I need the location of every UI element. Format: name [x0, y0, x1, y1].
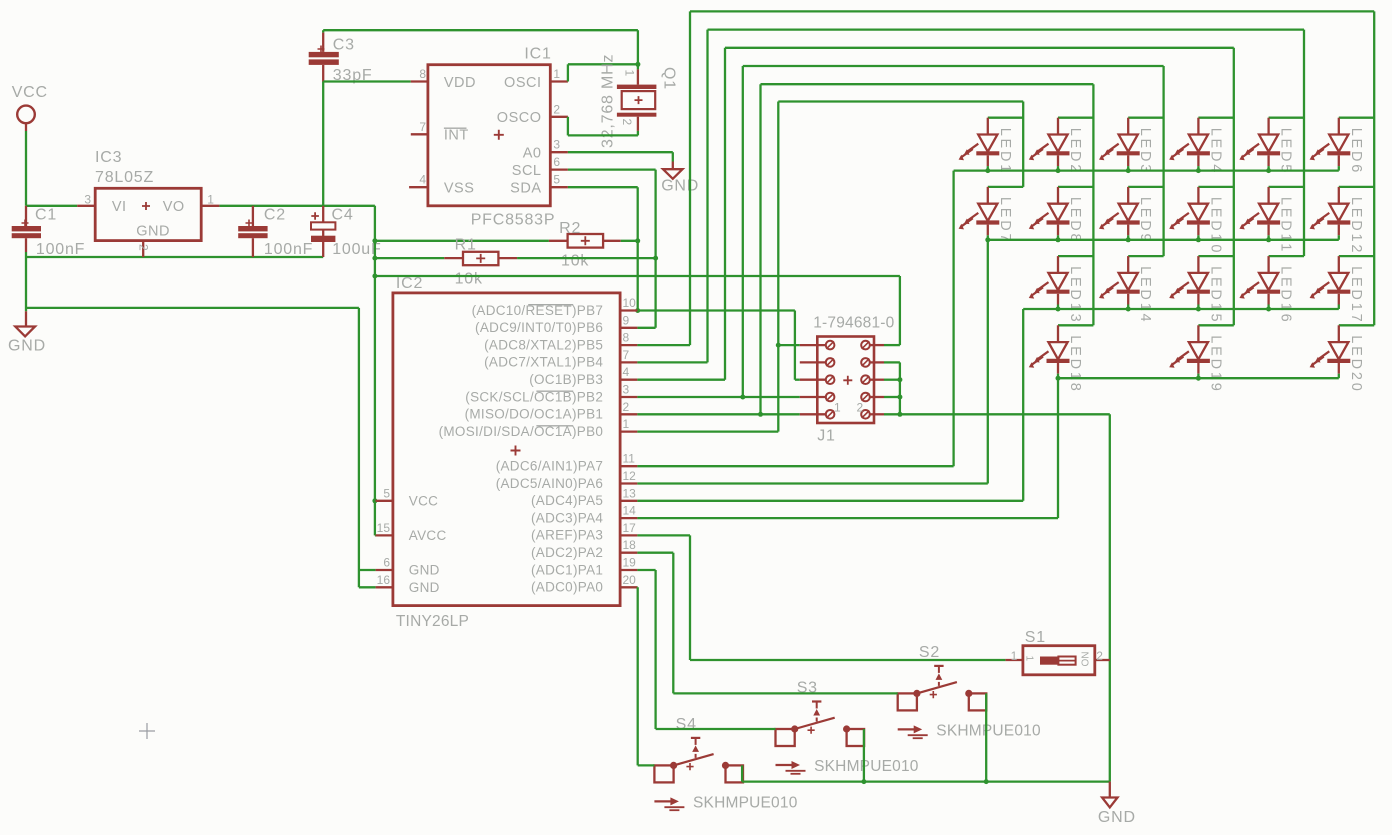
svg-text:LED15: LED15	[1207, 266, 1223, 324]
svg-text:PFC8583P: PFC8583P	[471, 212, 556, 229]
svg-text:INT: INT	[444, 128, 469, 144]
wire OSCI net	[568, 64, 638, 81]
svg-text:1: 1	[207, 193, 214, 207]
svg-text:1: 1	[1011, 649, 1018, 663]
svg-text:78L05Z: 78L05Z	[95, 169, 154, 186]
svg-text:IC1: IC1	[524, 46, 551, 63]
svg-text:14: 14	[623, 504, 637, 518]
LED11	[1239, 187, 1304, 254]
svg-text:LED1: LED1	[997, 128, 1013, 175]
LED6	[1310, 118, 1375, 175]
svg-text:VCC: VCC	[12, 84, 48, 101]
wire VCC to J1 feed	[375, 276, 900, 345]
capacitor C3	[309, 30, 373, 84]
svg-text:10k: 10k	[455, 271, 483, 288]
svg-text:(ADC3)PA4: (ADC3)PA4	[531, 510, 603, 525]
svg-text:(ADC6/AIN1)PA7: (ADC6/AIN1)PA7	[496, 459, 603, 474]
svg-text:(ADC8/XTAL2)PB5: (ADC8/XTAL2)PB5	[484, 337, 603, 352]
svg-text:LED13: LED13	[1067, 266, 1083, 324]
svg-text:LED5: LED5	[1278, 128, 1294, 175]
switch S3 SKHMPUE010	[776, 680, 919, 776]
svg-text:7: 7	[419, 120, 426, 134]
LED13	[1029, 256, 1094, 324]
svg-text:SDA: SDA	[510, 181, 541, 197]
svg-text:16: 16	[377, 573, 391, 587]
svg-text:3: 3	[84, 193, 91, 207]
wire GND to IC2 pins	[26, 308, 376, 587]
LED19	[1169, 325, 1234, 393]
svg-text:2: 2	[553, 102, 560, 116]
svg-text:100nF: 100nF	[36, 241, 85, 258]
wire C3 top to OSCI	[323, 30, 640, 67]
svg-text:LED6: LED6	[1348, 128, 1364, 175]
svg-text:8: 8	[623, 331, 630, 345]
svg-text:LED9: LED9	[1137, 197, 1153, 244]
svg-text:GND: GND	[136, 223, 170, 239]
LED7	[959, 187, 1024, 244]
svg-text:Q1: Q1	[661, 67, 678, 90]
svg-text:OSCO: OSCO	[497, 110, 542, 126]
svg-text:S2: S2	[919, 644, 940, 661]
svg-text:TINY26LP: TINY26LP	[396, 613, 469, 630]
LED1	[959, 118, 1024, 175]
svg-text:C3: C3	[333, 36, 355, 53]
resistor R1	[375, 237, 656, 288]
svg-text:VCC: VCC	[409, 493, 438, 508]
svg-text:2: 2	[1096, 649, 1103, 663]
LED9	[1099, 187, 1164, 244]
svg-text:8: 8	[419, 67, 426, 81]
svg-text:GND: GND	[8, 338, 46, 355]
svg-text:LED2: LED2	[1067, 128, 1083, 175]
svg-text:1: 1	[623, 70, 637, 77]
capacitor C2	[238, 206, 313, 258]
svg-text:9: 9	[623, 313, 630, 327]
svg-text:LED18: LED18	[1067, 335, 1083, 393]
LED14	[1099, 256, 1164, 324]
svg-text:VO: VO	[163, 199, 185, 215]
svg-text:VI: VI	[112, 199, 127, 215]
svg-text:LED14: LED14	[1137, 266, 1153, 324]
LED10	[1169, 187, 1234, 255]
svg-text:LED10: LED10	[1207, 197, 1223, 255]
svg-text:1: 1	[1024, 656, 1035, 662]
svg-text:SKHMPUE010: SKHMPUE010	[693, 794, 798, 811]
svg-text:4: 4	[419, 173, 426, 187]
wire C3 bottom to VDD	[323, 82, 411, 206]
voltage regulator IC3 78L05Z	[77, 149, 219, 257]
wire cathode bus row4	[637, 376, 1338, 518]
LED15	[1169, 256, 1234, 324]
svg-text:GND: GND	[1098, 809, 1136, 826]
svg-text:C1: C1	[35, 207, 57, 224]
svg-text:1: 1	[834, 401, 841, 415]
wire cathode bus row2	[637, 237, 1338, 483]
switch S4 SKHMPUE010	[654, 716, 797, 812]
svg-text:10k: 10k	[561, 253, 589, 270]
LED16	[1239, 256, 1304, 324]
svg-text:(ADC4)PA5: (ADC4)PA5	[531, 493, 603, 508]
svg-text:(ADC9/INT0/T0)PB6: (ADC9/INT0/T0)PB6	[475, 320, 603, 335]
wire GND bottom bus	[742, 765, 1110, 781]
ic IC1 PFC8583P	[409, 46, 568, 229]
wire pin17 to S1	[637, 535, 1005, 660]
svg-text:VSS: VSS	[444, 181, 475, 197]
svg-text:LED16: LED16	[1278, 266, 1294, 324]
svg-text:LED12: LED12	[1348, 197, 1364, 255]
svg-text:(AREF)PA3: (AREF)PA3	[531, 528, 603, 543]
svg-text:VDD: VDD	[444, 75, 476, 91]
svg-text:IC2: IC2	[396, 275, 423, 292]
svg-text:LED7: LED7	[997, 197, 1013, 244]
svg-text:1: 1	[623, 417, 630, 431]
wire cathode bus row1	[637, 168, 1338, 466]
svg-text:SKHMPUE010: SKHMPUE010	[814, 758, 919, 775]
svg-text:R1: R1	[455, 237, 477, 254]
wire GND rail	[26, 252, 323, 257]
svg-text:IC3: IC3	[95, 149, 122, 166]
svg-text:4: 4	[623, 365, 630, 379]
svg-text:11: 11	[623, 452, 636, 466]
svg-text:1-794681-0: 1-794681-0	[813, 315, 894, 332]
svg-text:1: 1	[553, 67, 560, 81]
svg-text:J1: J1	[817, 428, 836, 445]
svg-text:2: 2	[137, 244, 151, 251]
svg-text:(ADC2)PA2: (ADC2)PA2	[531, 545, 603, 560]
wire anode bus A	[637, 11, 1374, 345]
wire anode bus D	[637, 66, 1163, 400]
svg-text:ON: ON	[1081, 652, 1092, 667]
svg-text:(SCK/SCL/OC1B)PB2: (SCK/SCL/OC1B)PB2	[465, 389, 603, 404]
wire A0 to GND	[568, 152, 673, 161]
LED20	[1310, 325, 1375, 393]
svg-text:SKHMPUE010: SKHMPUE010	[936, 722, 1041, 739]
svg-text:20: 20	[623, 573, 637, 587]
wire pin18 to S2	[637, 553, 897, 694]
svg-text:C4: C4	[332, 207, 354, 224]
svg-text:GND: GND	[409, 580, 440, 595]
LED5	[1239, 118, 1304, 175]
svg-text:(ADC5/AIN0)PA6: (ADC5/AIN0)PA6	[496, 476, 603, 491]
svg-text:3: 3	[553, 138, 560, 152]
svg-text:(ADC0)PA0: (ADC0)PA0	[531, 580, 603, 595]
svg-text:OSCI: OSCI	[504, 75, 541, 91]
switch S2 SKHMPUE010	[898, 644, 1041, 740]
svg-text:13: 13	[623, 486, 637, 500]
wire OSCO net	[568, 117, 638, 136]
svg-text:LED4: LED4	[1207, 128, 1223, 175]
wire SDA net	[568, 187, 640, 313]
wire anode bus E	[637, 84, 1093, 417]
LED12	[1310, 187, 1375, 255]
svg-text:LED20: LED20	[1348, 335, 1364, 393]
wire GND long J1R5 to S1	[884, 414, 1110, 781]
LED4	[1169, 118, 1234, 175]
svg-text:R2: R2	[559, 220, 581, 237]
wire VCC to rail	[25, 131, 27, 206]
svg-text:LED17: LED17	[1348, 266, 1364, 324]
svg-text:2: 2	[623, 400, 630, 414]
svg-text:2: 2	[857, 401, 864, 415]
wire S3 pad to GND bus	[861, 729, 866, 784]
ground symbol GND left	[8, 257, 46, 355]
svg-text:LED19: LED19	[1207, 335, 1223, 393]
svg-text:LED8: LED8	[1067, 197, 1083, 244]
resistor R2	[375, 220, 638, 270]
svg-text:32,768 MHz: 32,768 MHz	[600, 54, 617, 148]
svg-text:S4: S4	[676, 716, 697, 733]
connector J1	[800, 315, 895, 445]
svg-text:SCL: SCL	[512, 163, 542, 179]
svg-text:7: 7	[623, 348, 630, 362]
svg-text:LED3: LED3	[1137, 128, 1153, 175]
svg-text:3: 3	[623, 383, 630, 397]
svg-text:A0: A0	[523, 146, 542, 162]
svg-text:6: 6	[383, 556, 390, 570]
crystal Q1	[600, 54, 678, 148]
svg-text:17: 17	[623, 521, 637, 535]
power symbol VCC	[12, 84, 48, 131]
svg-text:12: 12	[623, 469, 637, 483]
wire cathode bus row3	[637, 307, 1338, 501]
LED2	[1029, 118, 1094, 175]
LED17	[1310, 256, 1375, 324]
svg-text:GND: GND	[409, 563, 440, 578]
ground symbol GND bottom	[1098, 782, 1136, 826]
switch S1	[1005, 629, 1109, 675]
wire pin10 to J1 L3	[638, 311, 800, 380]
svg-text:10: 10	[623, 296, 637, 310]
wire SCL net	[568, 170, 658, 328]
svg-text:(MISO/DO/OC1A)PB1: (MISO/DO/OC1A)PB1	[465, 407, 604, 422]
wire J1 right to GND net	[884, 362, 902, 416]
ground symbol GND at Q1	[661, 162, 699, 195]
LED8	[1029, 187, 1094, 244]
svg-text:19: 19	[623, 556, 637, 570]
LED18	[1029, 325, 1094, 393]
wire pin20 to S4	[637, 587, 654, 765]
svg-text:15: 15	[377, 521, 391, 535]
svg-text:S1: S1	[1025, 629, 1046, 646]
capacitor C1	[12, 206, 86, 258]
LED3	[1099, 118, 1164, 175]
svg-text:2: 2	[620, 119, 634, 126]
svg-text:(OC1B)PB3: (OC1B)PB3	[529, 372, 603, 387]
wire pin19 to S3	[637, 570, 775, 729]
svg-text:18: 18	[623, 538, 637, 552]
svg-text:100nF: 100nF	[264, 241, 313, 258]
svg-text:5: 5	[383, 486, 390, 500]
capacitor C4 electrolytic	[311, 206, 382, 258]
svg-text:6: 6	[553, 155, 560, 169]
wire VCC column	[372, 206, 377, 536]
svg-text:GND: GND	[661, 177, 699, 194]
wire VCC rail	[26, 205, 375, 207]
wire S2 pad to GND bus	[984, 693, 989, 784]
wire anode bus F	[637, 102, 1023, 432]
wire anode bus B	[637, 30, 1304, 363]
svg-text:AVCC: AVCC	[409, 528, 447, 543]
cursor crosshair mark	[139, 723, 155, 739]
svg-text:C2: C2	[264, 207, 286, 224]
svg-text:5: 5	[553, 173, 560, 187]
svg-text:(MOSI/DI/SDA/OC1A)PB0: (MOSI/DI/SDA/OC1A)PB0	[439, 424, 604, 439]
ic IC2 TINY26LP	[376, 275, 638, 630]
svg-text:LED11: LED11	[1278, 197, 1294, 254]
svg-text:(ADC7/XTAL1)PB4: (ADC7/XTAL1)PB4	[484, 355, 603, 370]
svg-text:(ADC1)PA1: (ADC1)PA1	[531, 562, 603, 577]
wire anode bus C	[637, 48, 1233, 380]
